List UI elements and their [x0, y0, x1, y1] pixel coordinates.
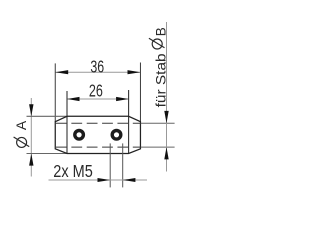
bore hidden line top: [56, 122, 141, 124]
extension + shoulder line right (26 dim): [128, 90, 130, 154]
extension line right face up (36 dim): [139, 63, 141, 122]
extension line left face up (36 dim): [54, 63, 56, 121]
part outline: [55, 116, 140, 153]
M5 dimension line: [49, 179, 148, 181]
hole left (M5): [75, 131, 84, 140]
arrow A top: [29, 104, 33, 116]
dimension line 26: [67, 98, 129, 100]
extension line A top: [27, 115, 67, 117]
arrow 36 left: [55, 70, 68, 74]
svg-text:B: B: [153, 27, 168, 36]
diameter A dimension line: [30, 98, 32, 177]
svg-text:A: A: [13, 120, 29, 130]
svg-text:36: 36: [90, 57, 104, 77]
arrow 26 right: [116, 97, 129, 101]
extension + shoulder line left (26 dim): [66, 91, 68, 154]
arrow B bottom: [164, 147, 168, 159]
svg-text:2x M5: 2x M5: [53, 161, 93, 181]
dimension line 36: [55, 71, 140, 73]
arrow M5 left: [98, 178, 111, 182]
svg-text:für Stab: für Stab: [152, 53, 168, 107]
diameter B dimension line: [166, 22, 168, 172]
hole right (M5): [112, 131, 121, 140]
svg-text:26: 26: [89, 81, 103, 101]
arrow A bottom: [29, 154, 33, 166]
diameter symbol of label A: [17, 137, 27, 147]
arrow 26 left: [67, 97, 80, 101]
arrow B top: [164, 111, 168, 123]
bore hidden line bottom: [56, 146, 141, 148]
arrow 36 right: [128, 70, 141, 74]
M5 extension line left: [109, 143, 111, 187]
bore extension line bottom (to diameter B dim): [141, 146, 175, 148]
extension line A bottom: [27, 153, 67, 155]
M5 extension line right: [122, 143, 124, 187]
diameter symbol of label B: [152, 39, 162, 49]
arrow M5 right: [123, 178, 136, 182]
bore extension line top (to diameter B dim): [141, 122, 175, 124]
